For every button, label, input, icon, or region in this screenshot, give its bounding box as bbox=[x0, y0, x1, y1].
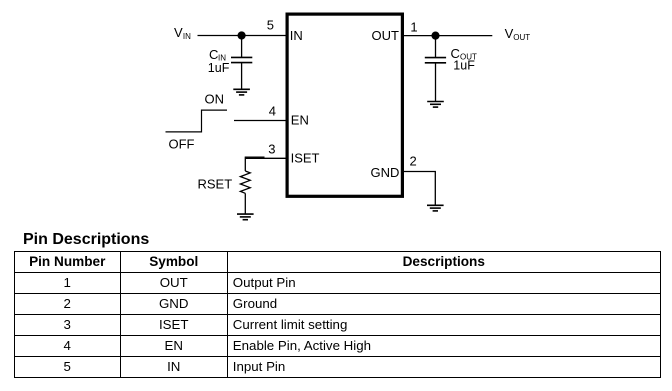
ground (COUT) bbox=[427, 102, 444, 108]
svg-text:2: 2 bbox=[410, 153, 417, 168]
net label VOUT bbox=[505, 26, 531, 42]
svg-text:ON: ON bbox=[205, 91, 225, 106]
pin description table bbox=[14, 251, 661, 378]
wire pin 3 ISET bbox=[245, 158, 285, 171]
wire pin 1 output bbox=[404, 35, 492, 37]
svg-text:C: C bbox=[209, 47, 218, 62]
svg-text:EN: EN bbox=[291, 113, 309, 128]
svg-text:1: 1 bbox=[410, 20, 417, 35]
label COUT bbox=[451, 46, 478, 62]
label CIN bbox=[209, 47, 226, 62]
svg-text:RSET: RSET bbox=[198, 176, 233, 191]
wire pin 4 EN bbox=[234, 120, 286, 122]
svg-text:1uF: 1uF bbox=[208, 61, 230, 75]
node VIN junction bbox=[238, 31, 246, 39]
svg-text:OFF: OFF bbox=[169, 137, 195, 152]
wire pin 2 GND bbox=[404, 172, 435, 206]
svg-text:IN: IN bbox=[290, 28, 303, 43]
IC U1 regulator block bbox=[287, 14, 402, 196]
wire pin 5 input bbox=[198, 35, 286, 37]
svg-text:OUT: OUT bbox=[513, 33, 530, 42]
wire ON/OFF step waveform bbox=[166, 110, 228, 132]
svg-text:IN: IN bbox=[183, 32, 191, 41]
net label VIN bbox=[174, 25, 191, 41]
svg-text:V: V bbox=[174, 25, 183, 40]
svg-text:4: 4 bbox=[269, 104, 276, 119]
wire resistor to ground bbox=[244, 193, 246, 214]
ground (CIN) bbox=[233, 89, 250, 95]
svg-text:5: 5 bbox=[267, 17, 274, 32]
capacitor COUT bbox=[425, 36, 446, 102]
svg-text:1uF: 1uF bbox=[453, 59, 475, 73]
node VOUT junction bbox=[431, 31, 439, 39]
svg-text:ISET: ISET bbox=[291, 150, 320, 165]
capacitor CIN bbox=[231, 36, 252, 90]
svg-text:V: V bbox=[505, 26, 514, 41]
resistor RSET bbox=[240, 171, 250, 193]
table heading bbox=[23, 232, 149, 248]
ground (pin 2) bbox=[427, 205, 444, 211]
ground (RSET) bbox=[237, 214, 254, 220]
svg-text:3: 3 bbox=[268, 142, 275, 157]
svg-text:GND: GND bbox=[371, 165, 400, 180]
svg-text:OUT: OUT bbox=[372, 28, 400, 43]
